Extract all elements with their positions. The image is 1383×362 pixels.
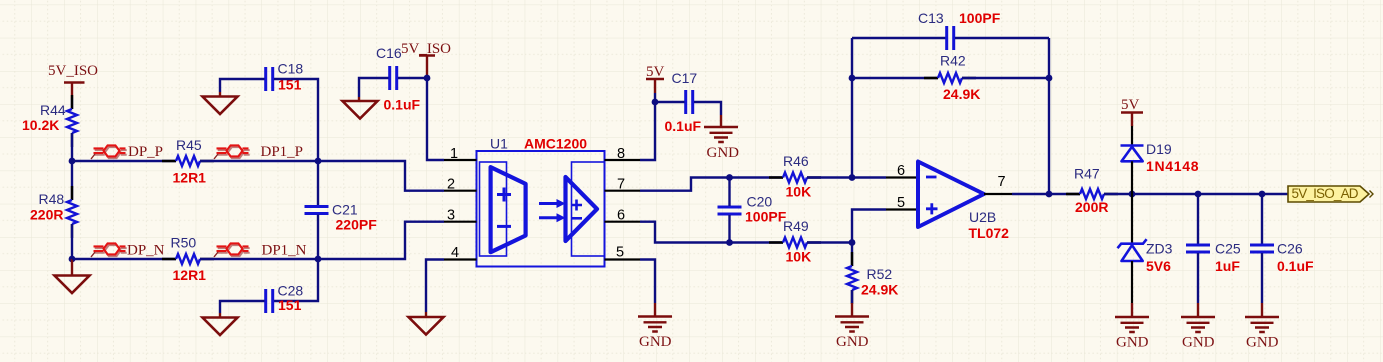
svg-text:7: 7 <box>617 177 625 193</box>
svg-text:C17: C17 <box>672 70 698 86</box>
resistor R50 12R1 <box>162 235 214 284</box>
wire C21 bottom to DP_N row <box>317 215 319 260</box>
wire DP_P row <box>72 160 176 162</box>
svg-text:R42: R42 <box>940 53 966 69</box>
svg-text:5V_ISO: 5V_ISO <box>48 63 98 79</box>
junction inverting node <box>849 174 856 181</box>
wire DP1_P to U1 pin 2 <box>318 161 444 191</box>
svg-text:U2B: U2B <box>969 209 996 225</box>
wire R47 to port <box>1104 193 1288 195</box>
svg-text:1N4148: 1N4148 <box>1146 158 1199 174</box>
wire feedback right column <box>1048 38 1050 194</box>
wire R50 to bus <box>200 258 318 260</box>
svg-text:DP1_P: DP1_P <box>261 144 304 160</box>
svg-text:4: 4 <box>451 245 459 261</box>
svg-text:220PF: 220PF <box>336 217 378 233</box>
wire R42 to right column <box>962 77 1049 79</box>
capacitor C13 100PF <box>918 10 1001 50</box>
svg-text:2: 2 <box>447 177 455 193</box>
wire C13 right <box>955 37 1049 39</box>
wire C16 left <box>359 78 389 97</box>
capacitor C28 151 <box>266 283 304 314</box>
svg-text:C25: C25 <box>1215 241 1241 257</box>
ground GND below C17 <box>704 115 739 161</box>
wire R48 to ground <box>71 224 73 259</box>
power 5V at D19 <box>1121 97 1143 126</box>
ground triangle below C28 <box>203 313 238 335</box>
wire C20 bottom stem <box>728 215 730 243</box>
differential pair directive DP1_N <box>214 243 250 257</box>
svg-text:5: 5 <box>897 195 905 211</box>
junction C16 5V_ISO <box>424 75 431 82</box>
pin 6 U2B <box>886 163 918 179</box>
junction C25 node <box>1195 191 1202 198</box>
svg-text:0.1uF: 0.1uF <box>1277 258 1314 274</box>
wire feedback left column <box>851 38 853 178</box>
resistor R44 10.2K <box>22 95 77 147</box>
ground GND below C25 <box>1181 303 1215 351</box>
resistor R48 220R <box>30 186 77 238</box>
svg-text:U1: U1 <box>490 136 508 152</box>
ground triangle below pin 4 <box>409 312 444 335</box>
junction node DP_N <box>69 256 76 263</box>
power 5V_ISO at C16 <box>401 41 451 78</box>
ground triangle below C18 <box>203 92 238 114</box>
wire bus bottom to C28 <box>274 259 318 301</box>
wire DP_N row <box>72 258 176 260</box>
svg-text:10.2K: 10.2K <box>22 117 59 133</box>
power 5V at C17 <box>646 64 665 93</box>
svg-text:6: 6 <box>617 208 625 224</box>
junction output node <box>1046 191 1053 198</box>
ground GND below C26 <box>1245 303 1279 351</box>
wire pin 7 to R46 row <box>640 178 783 191</box>
svg-text:R49: R49 <box>783 218 809 234</box>
junction C20 top <box>726 174 733 181</box>
svg-text:200R: 200R <box>1075 199 1108 215</box>
pin 7 U2B <box>984 174 1012 194</box>
capacitor C17 0.1uF <box>665 70 702 134</box>
wire DP1_N to U1 pin 3 <box>318 222 444 259</box>
svg-text:AMC1200: AMC1200 <box>524 136 587 152</box>
svg-text:100PF: 100PF <box>745 209 787 225</box>
resistor R49 10K <box>769 218 821 265</box>
svg-text:R50: R50 <box>171 235 197 251</box>
differential pair directive DP1_P <box>214 145 250 159</box>
svg-text:R46: R46 <box>783 153 809 169</box>
svg-text:D19: D19 <box>1146 141 1172 157</box>
junction non-inverting node <box>849 239 856 246</box>
diode D19 1N4148 <box>1121 126 1200 194</box>
svg-text:1uF: 1uF <box>1215 258 1240 274</box>
svg-text:7: 7 <box>998 174 1006 190</box>
svg-text:5V: 5V <box>1121 97 1140 113</box>
wire C17 left <box>655 101 685 103</box>
resistor R52 24.9K <box>847 252 898 304</box>
junction 5V C17 <box>652 99 659 106</box>
wire C26 top <box>1261 194 1263 244</box>
svg-text:R47: R47 <box>1074 166 1100 182</box>
svg-text:10K: 10K <box>786 184 812 200</box>
IC U1 AMC1200 <box>477 136 605 267</box>
wire 5V_ISO to U1 pin 1 <box>427 78 444 160</box>
ground GND below ZD3 <box>1115 303 1149 351</box>
pin 3 <box>444 208 477 224</box>
wire C18 left <box>220 79 265 92</box>
pin 1 <box>444 146 477 162</box>
svg-text:C16: C16 <box>376 45 402 61</box>
capacitor C21 220PF <box>305 202 378 233</box>
svg-text:C13: C13 <box>918 10 944 26</box>
junction D19 node <box>1129 191 1136 198</box>
svg-text:C18: C18 <box>278 61 304 77</box>
svg-text:5V_ISO_AD: 5V_ISO_AD <box>1292 186 1359 201</box>
svg-text:ZD3: ZD3 <box>1146 241 1173 257</box>
svg-text:GND: GND <box>1182 335 1215 351</box>
wire node to R42 <box>852 77 938 79</box>
svg-text:0.1uF: 0.1uF <box>665 118 702 134</box>
wire pin 4 to ground <box>426 260 444 313</box>
ground triangle below C16 <box>343 97 378 119</box>
svg-text:GND: GND <box>836 334 869 350</box>
svg-text:C21: C21 <box>332 202 358 218</box>
ground triangle below R48 <box>55 259 90 293</box>
wire pin 6 to R49 row <box>640 222 783 243</box>
svg-text:6: 6 <box>897 163 905 179</box>
wire C25 top <box>1197 194 1199 244</box>
wire bus to C21 top <box>317 161 319 206</box>
pin 2 <box>444 177 477 193</box>
svg-text:GND: GND <box>1116 335 1149 351</box>
wire R45 to bus <box>200 160 318 162</box>
svg-text:5V: 5V <box>646 64 665 80</box>
svg-text:GND: GND <box>639 334 672 350</box>
wire node to R52 <box>851 243 853 267</box>
svg-text:12R1: 12R1 <box>173 170 207 186</box>
wire 5V_ISO to R44 <box>71 98 73 109</box>
op-amp U2B TL072 <box>918 162 1009 242</box>
svg-text:DP1_N: DP1_N <box>262 243 307 259</box>
svg-text:R48: R48 <box>39 191 65 207</box>
wire R46 to node <box>807 176 852 178</box>
wire C28 left <box>220 301 265 313</box>
pin 5 <box>605 245 641 261</box>
wire U2B output <box>1012 193 1080 195</box>
resistor R46 10K <box>769 153 821 200</box>
junction node DP_P <box>69 158 76 165</box>
ground GND below pin 5 <box>638 303 672 350</box>
wire C18 right to bus <box>274 79 318 161</box>
svg-text:151: 151 <box>278 297 302 313</box>
svg-text:220R: 220R <box>30 207 63 223</box>
svg-text:C20: C20 <box>747 194 773 210</box>
pin 7 <box>605 177 641 193</box>
wire C17 right <box>694 102 721 115</box>
junction bus DP1_N <box>315 256 322 263</box>
wire node to C13 <box>852 37 946 39</box>
svg-text:24.9K: 24.9K <box>861 282 898 298</box>
svg-text:24.9K: 24.9K <box>943 86 980 102</box>
capacitor C16 0.1uF <box>376 45 421 113</box>
resistor R42 24.9K <box>924 53 980 103</box>
wire node to U2B pin 5 <box>852 210 886 243</box>
wire R49 to node <box>807 241 852 243</box>
port 5V_ISO_AD <box>1288 186 1373 202</box>
wire R44 to R48 <box>71 133 73 200</box>
power 5V_ISO left <box>48 63 98 98</box>
differential pair directive DP_P <box>91 145 127 159</box>
svg-text:GND: GND <box>707 145 740 161</box>
svg-text:3: 3 <box>447 208 455 224</box>
junction C20 bottom <box>726 239 733 246</box>
zener diode ZD3 5V6 <box>1118 194 1173 303</box>
capacitor C26 0.1uF <box>1250 241 1314 275</box>
svg-text:5: 5 <box>616 245 624 261</box>
svg-text:R44: R44 <box>40 102 66 118</box>
capacitor C25 1uF <box>1186 241 1241 275</box>
junction C26 node <box>1259 191 1266 198</box>
svg-text:1: 1 <box>450 146 458 162</box>
svg-text:R52: R52 <box>867 266 893 282</box>
pin 8 <box>605 146 641 162</box>
wire C16 right <box>398 77 427 79</box>
svg-text:GND: GND <box>1246 335 1279 351</box>
ground GND below R52 <box>835 303 869 350</box>
pin 6 <box>605 208 641 224</box>
svg-text:DP_N: DP_N <box>127 243 165 259</box>
svg-text:DP_P: DP_P <box>128 144 163 160</box>
wire pin 8 to 5V node <box>640 93 655 160</box>
capacitor C18 151 <box>266 61 304 93</box>
svg-text:10K: 10K <box>786 249 812 265</box>
wire C20 top stem <box>728 178 730 207</box>
svg-text:100PF: 100PF <box>959 10 1001 26</box>
svg-text:8: 8 <box>617 146 625 162</box>
junction R42 left <box>849 75 856 82</box>
wire R52 to ground <box>851 290 853 303</box>
svg-text:TL072: TL072 <box>969 225 1010 241</box>
svg-text:0.1uF: 0.1uF <box>384 97 421 113</box>
svg-text:R45: R45 <box>176 137 202 153</box>
svg-text:12R1: 12R1 <box>173 267 207 283</box>
capacitor C20 100PF <box>718 194 787 225</box>
junction bus DP1_P <box>315 158 322 165</box>
svg-text:5V6: 5V6 <box>1146 258 1171 274</box>
resistor R45 12R1 <box>162 137 214 186</box>
resistor R47 200R <box>1066 166 1118 216</box>
wire node to U2B pin 6 <box>852 176 886 178</box>
pin 4 <box>444 245 477 261</box>
wire pin 5 to ground <box>640 260 655 304</box>
differential pair directive DP_N <box>91 243 127 257</box>
wire C25 to ground <box>1197 253 1199 303</box>
pin 5 U2B <box>886 195 918 211</box>
junction R42 right <box>1046 75 1053 82</box>
wire C26 to ground <box>1261 253 1263 303</box>
svg-text:C26: C26 <box>1277 241 1303 257</box>
